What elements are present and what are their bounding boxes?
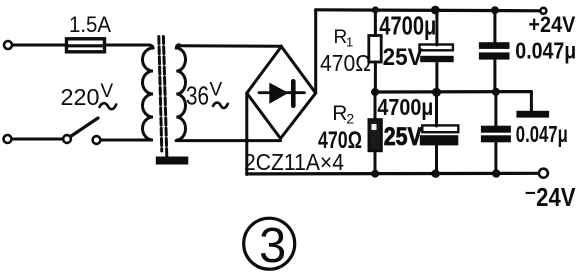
svg-text:4700μ: 4700μ — [377, 94, 433, 120]
svg-text:+24V: +24V — [528, 12, 575, 37]
svg-text:36: 36 — [186, 81, 209, 111]
svg-text:⁻24V: ⁻24V — [525, 182, 577, 212]
svg-text:3: 3 — [259, 219, 286, 273]
svg-text:25V: 25V — [384, 123, 422, 151]
svg-text:1.5A: 1.5A — [69, 12, 111, 37]
svg-text:2: 2 — [346, 111, 354, 127]
svg-text:0.047μ: 0.047μ — [515, 38, 576, 64]
svg-text:470Ω: 470Ω — [320, 50, 371, 76]
svg-text:V: V — [210, 80, 223, 101]
svg-text:220: 220 — [61, 84, 100, 110]
svg-text:25V: 25V — [383, 44, 423, 71]
svg-text:4700μ: 4700μ — [379, 13, 436, 41]
svg-text:0.047μ: 0.047μ — [516, 121, 568, 147]
svg-text:R: R — [332, 102, 347, 125]
svg-text:1: 1 — [346, 35, 353, 50]
svg-text:470Ω: 470Ω — [318, 127, 362, 154]
svg-text:V: V — [101, 81, 114, 102]
